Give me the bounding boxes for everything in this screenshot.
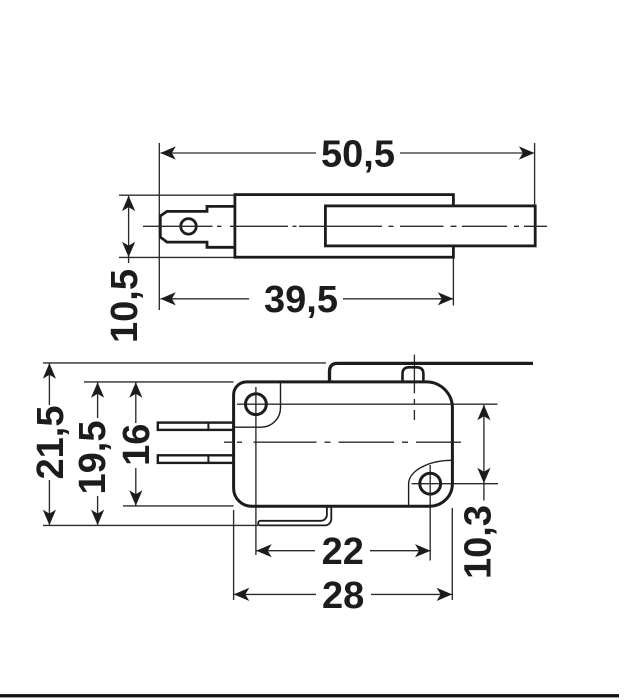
svg-text:16: 16	[116, 424, 158, 466]
svg-text:19,5: 19,5	[72, 421, 114, 495]
svg-text:22: 22	[322, 531, 364, 573]
svg-text:10,3: 10,3	[458, 505, 500, 579]
svg-text:28: 28	[322, 575, 364, 617]
svg-text:10,5: 10,5	[104, 269, 146, 343]
svg-text:21,5: 21,5	[30, 406, 72, 480]
svg-text:39,5: 39,5	[264, 279, 338, 321]
svg-text:50,5: 50,5	[321, 134, 395, 176]
